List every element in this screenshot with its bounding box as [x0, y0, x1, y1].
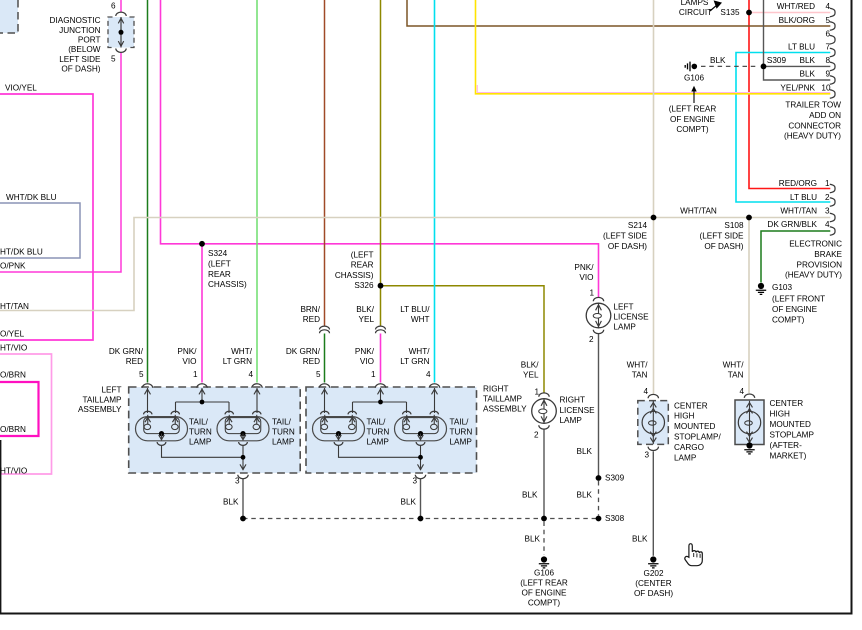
svg-text:DK GRN/: DK GRN/	[109, 347, 144, 356]
svg-text:REAR: REAR	[351, 261, 374, 270]
wire DK GRN/RED left taillamp pin 5	[147, 0, 149, 383]
svg-text:(CENTER: (CENTER	[635, 579, 671, 588]
wire BLK left taillamp pin 3 down	[242, 479, 244, 519]
svg-text:DK GRN/: DK GRN/	[286, 347, 321, 356]
svg-text:S324: S324	[208, 249, 228, 258]
svg-text:4: 4	[426, 370, 431, 379]
connector C-box left (WHT/DK BLU)	[0, 203, 80, 258]
node S308	[596, 516, 602, 522]
svg-text:YEL: YEL	[523, 370, 539, 379]
svg-text:HT/TAN: HT/TAN	[0, 302, 29, 311]
svg-text:BLK: BLK	[522, 491, 538, 500]
splice BLK/YEL to PNK/VIO	[376, 326, 386, 333]
wire DK GRN/BLK brake provision to G103	[761, 231, 830, 283]
svg-text:MOUNTED: MOUNTED	[770, 420, 811, 429]
svg-text:BLK/: BLK/	[356, 305, 374, 314]
off-page arrow LAMPS CIRCUIT	[710, 0, 722, 11]
svg-text:OF DASH): OF DASH)	[608, 242, 647, 251]
svg-text:9: 9	[825, 70, 830, 79]
svg-text:WHT/TAN: WHT/TAN	[680, 207, 717, 216]
svg-text:LAMP: LAMP	[189, 437, 212, 446]
page border bottom	[0, 613, 853, 615]
svg-text:5: 5	[316, 370, 321, 379]
connector fragment top-left corner	[0, 0, 18, 33]
diagnostic junction port box	[108, 17, 134, 48]
svg-text:TAIL/: TAIL/	[189, 418, 209, 427]
lamp RIGHT LICENSE LAMP	[532, 393, 557, 429]
svg-text:LAMP: LAMP	[614, 322, 637, 331]
diagnostic junction port internals	[116, 12, 126, 52]
node S324	[199, 241, 205, 247]
svg-text:S309: S309	[605, 474, 625, 483]
svg-text:LICENSE: LICENSE	[614, 312, 650, 321]
svg-text:YEL/PNK: YEL/PNK	[780, 84, 815, 93]
svg-text:BRN/: BRN/	[300, 305, 320, 314]
svg-text:(LEFT REAR: (LEFT REAR	[669, 105, 717, 114]
node S326	[378, 283, 384, 289]
arrow pointing to G106	[691, 86, 696, 103]
wire YEL/PNK pink tracer	[477, 85, 830, 93]
svg-text:WHT: WHT	[411, 315, 430, 324]
svg-text:WHT/: WHT/	[409, 347, 431, 356]
svg-text:(AFTER-: (AFTER-	[770, 441, 803, 450]
svg-text:TAIL/: TAIL/	[450, 418, 470, 427]
wire PNK/VIO S324 to left taillamp pin 1	[201, 244, 203, 383]
svg-text:LT BLU: LT BLU	[790, 193, 817, 202]
wire BLK dashed G106 to S309 top	[701, 65, 757, 67]
bulb tail/turn lamp 2	[217, 411, 269, 445]
node junction right taillamp ground	[418, 516, 424, 522]
svg-text:BRAKE: BRAKE	[814, 250, 842, 259]
svg-text:COMPT): COMPT)	[676, 125, 709, 134]
svg-text:LT BLU/: LT BLU/	[400, 305, 430, 314]
svg-text:PNK/: PNK/	[574, 263, 594, 272]
svg-text:CENTER: CENTER	[770, 399, 804, 408]
svg-text:6: 6	[825, 29, 830, 38]
node junction license ground	[541, 516, 547, 522]
svg-text:5: 5	[139, 370, 144, 379]
svg-text:BLK: BLK	[800, 70, 816, 79]
node S108	[746, 215, 752, 221]
svg-text:PROVISION: PROVISION	[797, 260, 843, 269]
svg-text:O/BRN: O/BRN	[0, 371, 26, 380]
svg-text:BLK: BLK	[710, 56, 726, 65]
svg-text:RIGHT: RIGHT	[483, 385, 508, 394]
svg-text:PNK/: PNK/	[177, 347, 197, 356]
svg-text:4: 4	[248, 370, 253, 379]
node S135	[746, 10, 752, 16]
svg-text:S214: S214	[628, 221, 648, 230]
svg-text:7: 7	[825, 42, 830, 51]
cargo stoplamp bulb	[642, 401, 664, 444]
svg-text:LICENSE: LICENSE	[560, 406, 596, 415]
svg-text:BLK/: BLK/	[521, 360, 539, 369]
svg-text:TRAILER TOW: TRAILER TOW	[785, 101, 841, 110]
svg-text:STOPLAMP/: STOPLAMP/	[674, 433, 721, 442]
svg-text:3: 3	[825, 207, 830, 216]
svg-text:LAMPS: LAMPS	[681, 0, 709, 7]
svg-text:1: 1	[371, 370, 376, 379]
svg-text:G106: G106	[684, 74, 704, 83]
svg-text:BLK: BLK	[577, 491, 593, 500]
center high mounted stoplamp aftermarket box	[735, 400, 764, 445]
svg-text:O/PNK: O/PNK	[0, 262, 26, 271]
svg-text:TURN: TURN	[189, 427, 212, 436]
page border right	[851, 0, 853, 615]
svg-text:BLK: BLK	[401, 498, 417, 507]
svg-text:(LEFT REAR: (LEFT REAR	[520, 578, 568, 587]
svg-text:3: 3	[412, 477, 417, 486]
ground G106 bottom	[539, 556, 549, 568]
svg-text:HIGH: HIGH	[674, 412, 695, 421]
wire WHT/TAN S214 to cargo lamp	[653, 218, 655, 394]
svg-text:4: 4	[825, 220, 830, 229]
svg-text:S108: S108	[724, 221, 744, 230]
right taillamp internal wiring	[322, 388, 438, 470]
wire BLK/YEL main vertical	[380, 0, 382, 326]
svg-text:WHT/: WHT/	[627, 360, 649, 369]
node S214	[651, 215, 657, 221]
wire BLK dashed to G106	[543, 522, 545, 556]
splice BRN/RED to DK GRN/RED	[320, 326, 330, 333]
svg-text:WHT/RED: WHT/RED	[777, 2, 815, 11]
svg-text:BLK: BLK	[577, 447, 593, 456]
svg-text:OF DASH): OF DASH)	[704, 242, 743, 251]
svg-text:LAMP: LAMP	[674, 453, 697, 462]
page border left partial	[0, 440, 2, 613]
svg-text:BLK: BLK	[800, 56, 816, 65]
svg-text:HT/DK BLU: HT/DK BLU	[0, 248, 43, 257]
svg-text:WHT/: WHT/	[231, 347, 253, 356]
wire BLK cargo lamp to G202	[652, 451, 654, 556]
svg-text:S308: S308	[605, 514, 625, 523]
svg-text:TURN: TURN	[450, 427, 473, 436]
svg-text:TAN: TAN	[632, 370, 648, 379]
svg-text:1: 1	[534, 388, 539, 397]
wire PNK/VIO right taillamp pin 1	[380, 334, 382, 383]
node S309 top	[761, 64, 767, 70]
svg-text:VIO: VIO	[360, 357, 374, 366]
svg-text:TAILLAMP: TAILLAMP	[83, 395, 123, 404]
svg-text:3: 3	[644, 451, 649, 460]
svg-text:LEFT SIDE: LEFT SIDE	[59, 55, 101, 64]
svg-text:HT/VIO: HT/VIO	[0, 467, 27, 476]
wire VIO/YEL loop left	[0, 94, 93, 340]
svg-text:8: 8	[825, 56, 830, 65]
svg-text:S309: S309	[767, 56, 787, 65]
svg-text:(LEFT FRONT: (LEFT FRONT	[772, 295, 825, 304]
svg-text:OF DASH): OF DASH)	[634, 589, 673, 598]
svg-text:S135: S135	[720, 8, 740, 17]
svg-text:DIAGNOSTIC: DIAGNOSTIC	[50, 16, 101, 25]
svg-text:JUNCTION: JUNCTION	[59, 26, 100, 35]
wire BLK S309 to trailer pins 8 and 9	[764, 0, 831, 80]
svg-text:3: 3	[235, 477, 240, 486]
wire VIO/BRN loop left	[0, 382, 39, 436]
svg-text:BLK: BLK	[525, 535, 541, 544]
svg-text:10: 10	[821, 84, 831, 93]
svg-text:BLK: BLK	[223, 498, 239, 507]
svg-text:(LEFT: (LEFT	[208, 259, 231, 268]
svg-text:CHASSIS): CHASSIS)	[208, 280, 247, 289]
ground G103	[756, 283, 766, 295]
svg-text:(LEFT SIDE: (LEFT SIDE	[603, 232, 648, 241]
svg-text:5: 5	[825, 16, 830, 25]
svg-text:2: 2	[589, 335, 594, 344]
taillamp pin connector arcs	[142, 384, 439, 479]
svg-text:WHT/DK BLU: WHT/DK BLU	[6, 193, 57, 202]
wire BLK right taillamp pin 3 down	[420, 479, 422, 519]
svg-text:TAIL/: TAIL/	[367, 418, 387, 427]
svg-text:G103: G103	[772, 283, 792, 292]
wire LT BLU trailer pin 7 to brake pin 2	[736, 53, 830, 203]
svg-text:O/BRN: O/BRN	[0, 425, 26, 434]
svg-text:5: 5	[111, 55, 116, 64]
svg-text:PNK/: PNK/	[355, 347, 375, 356]
svg-text:BLK/ORG: BLK/ORG	[779, 16, 815, 25]
svg-text:OF ENGINE: OF ENGINE	[772, 305, 818, 314]
svg-text:(LEFT SIDE: (LEFT SIDE	[700, 232, 745, 241]
svg-text:RED: RED	[303, 357, 320, 366]
svg-text:LEFT: LEFT	[614, 303, 634, 312]
electronic brake provision pins	[830, 184, 835, 235]
wire PNK/VIO diagnostic junction port	[0, 0, 121, 272]
svg-text:TURN: TURN	[367, 427, 390, 436]
svg-text:CARGO: CARGO	[674, 443, 704, 452]
svg-text:WHT/TAN: WHT/TAN	[780, 207, 817, 216]
node junction left taillamp ground	[240, 516, 246, 522]
wire PNK/VIO S324 to left license lamp	[161, 0, 599, 297]
svg-text:OF ENGINE: OF ENGINE	[521, 588, 567, 597]
svg-text:4: 4	[643, 387, 648, 396]
svg-text:(HEAVY DUTY): (HEAVY DUTY)	[785, 271, 842, 280]
svg-text:RED: RED	[126, 357, 143, 366]
svg-text:HT/VIO: HT/VIO	[0, 344, 27, 353]
svg-text:TURN: TURN	[272, 427, 295, 436]
wire WHT/RED S135 to pin 4	[749, 12, 830, 14]
svg-text:OF DASH): OF DASH)	[61, 65, 100, 74]
wire BLK dashed ground bus	[243, 518, 598, 520]
svg-text:TAN: TAN	[728, 370, 744, 379]
wire LT BLU/WHT right taillamp pin 4	[434, 0, 436, 383]
svg-text:ASSEMBLY: ASSEMBLY	[78, 405, 122, 414]
wire BRN/RED right taillamp upper	[324, 0, 326, 326]
svg-text:(LEFT: (LEFT	[351, 251, 374, 260]
right taillamp assembly box	[306, 387, 477, 473]
svg-text:2: 2	[534, 430, 539, 439]
svg-text:ASSEMBLY: ASSEMBLY	[483, 405, 527, 414]
svg-text:LT BLU: LT BLU	[788, 42, 815, 51]
svg-text:LAMP: LAMP	[367, 437, 390, 446]
svg-text:LAMP: LAMP	[560, 416, 583, 425]
wire BLK/ORG to trailer pin 5	[407, 0, 830, 26]
node S309 bottom	[596, 475, 602, 481]
svg-text:CENTER: CENTER	[674, 401, 708, 410]
svg-text:COMPT): COMPT)	[528, 598, 561, 607]
svg-text:BLK: BLK	[632, 535, 648, 544]
wire WHT/LT GRN left taillamp pin 4	[256, 0, 258, 383]
svg-text:WHT/: WHT/	[723, 360, 745, 369]
ground G106 top rotated	[685, 62, 697, 72]
wire RED/ORG main	[749, 0, 830, 189]
svg-text:COMPT): COMPT)	[772, 315, 805, 324]
left taillamp assembly box	[129, 387, 301, 473]
svg-text:VIO/YEL: VIO/YEL	[5, 84, 37, 93]
left taillamp internal wiring	[145, 388, 261, 470]
wire WHT/TAN left loop to pin 3	[0, 218, 830, 311]
svg-text:MOUNTED: MOUNTED	[674, 422, 715, 431]
aftermarket stoplamp case ground	[744, 442, 754, 454]
bulb tail/turn lamp 1	[136, 411, 188, 445]
svg-text:S326: S326	[354, 281, 374, 290]
svg-text:HIGH: HIGH	[770, 410, 791, 419]
svg-text:OF ENGINE: OF ENGINE	[670, 115, 716, 124]
svg-text:DK GRN/BLK: DK GRN/BLK	[767, 220, 817, 229]
svg-text:LAMP: LAMP	[272, 437, 295, 446]
svg-text:STOPLAMP: STOPLAMP	[770, 431, 815, 440]
bulb tail/turn lamp 3	[313, 411, 365, 445]
svg-text:1: 1	[825, 179, 830, 188]
bulb tail/turn lamp 4	[395, 411, 447, 445]
wire BLK left license lamp down to S309	[598, 334, 600, 478]
svg-text:ADD ON: ADD ON	[809, 111, 841, 120]
svg-text:CIRCUIT: CIRCUIT	[679, 8, 712, 17]
svg-text:2: 2	[825, 193, 830, 202]
svg-text:(BELOW: (BELOW	[68, 45, 101, 54]
svg-text:REAR: REAR	[208, 270, 231, 279]
svg-text:1: 1	[193, 370, 198, 379]
svg-text:6: 6	[111, 2, 116, 11]
svg-text:LEFT: LEFT	[101, 386, 121, 395]
svg-text:YEL: YEL	[359, 315, 375, 324]
aftermarket stoplamp bulb	[738, 401, 760, 444]
svg-text:RED: RED	[303, 315, 320, 324]
svg-text:RIGHT: RIGHT	[560, 396, 585, 405]
wire YEL/PNK yellow	[476, 0, 831, 94]
svg-text:4: 4	[825, 2, 830, 11]
wire BLK dashed S309 to S308	[598, 481, 600, 516]
svg-text:CONNECTOR: CONNECTOR	[788, 121, 841, 130]
ground G202	[648, 556, 658, 568]
svg-text:CHASSIS): CHASSIS)	[335, 271, 374, 280]
svg-text:(HEAVY DUTY): (HEAVY DUTY)	[784, 132, 841, 141]
wire BLK right license lamp down	[543, 430, 545, 519]
trailer tow connector pins	[830, 8, 835, 98]
svg-text:VIO: VIO	[579, 273, 593, 282]
svg-text:LT GRN: LT GRN	[400, 357, 429, 366]
wire WHT/VIO loop left	[0, 354, 52, 474]
center high mounted stoplamp / cargo lamp box	[638, 401, 669, 445]
svg-text:RED/ORG: RED/ORG	[779, 179, 817, 188]
svg-text:G202: G202	[643, 569, 663, 578]
svg-text:MARKET): MARKET)	[770, 452, 807, 461]
svg-text:1: 1	[589, 289, 594, 298]
wire WHT/TAN S108 to aftermarket stoplamp	[748, 218, 750, 394]
svg-text:O/YEL: O/YEL	[0, 330, 25, 339]
svg-text:4: 4	[739, 387, 744, 396]
wire DK GRN/RED right taillamp pin 5	[324, 334, 326, 383]
svg-text:ELECTRONIC: ELECTRONIC	[789, 240, 842, 249]
svg-text:G106: G106	[534, 569, 554, 578]
svg-text:TAILLAMP: TAILLAMP	[483, 395, 523, 404]
svg-text:VIO: VIO	[182, 357, 196, 366]
svg-text:LAMP: LAMP	[450, 437, 473, 446]
svg-text:TAIL/: TAIL/	[272, 418, 292, 427]
svg-text:LT GRN: LT GRN	[223, 357, 252, 366]
lamp LEFT LICENSE LAMP	[586, 297, 611, 333]
wire WHT/TAN top vertical to S214	[653, 0, 655, 218]
mouse hand cursor	[685, 544, 703, 566]
svg-text:PORT: PORT	[78, 36, 101, 45]
wire BLK/YEL S326 to right license lamp	[381, 286, 545, 393]
